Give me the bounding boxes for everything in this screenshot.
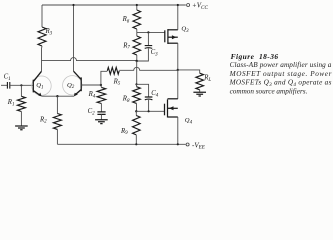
capacitor C1 — [7, 82, 9, 89]
junction: driver node (R7/R8) — [136, 60, 138, 62]
svg-text:Q4: Q4 — [185, 117, 193, 125]
wire: input lead — [1, 84, 7, 86]
svg-text:R6: R6 — [122, 16, 130, 24]
svg-text:Q2: Q2 — [67, 82, 75, 90]
resistor R5 — [107, 67, 119, 74]
wire: bottom -Vee rail — [57, 143, 185, 145]
resistor R2 — [53, 114, 61, 130]
svg-text:R8: R8 — [122, 96, 130, 104]
svg-text:Q3: Q3 — [181, 26, 189, 34]
wire: C4 top lead — [137, 84, 149, 97]
wire: Q3 source to output — [177, 43, 179, 70]
wire: R4 to C2 — [100, 104, 102, 112]
wire: Q1 collector node to driver chain (hops over Q2 collector) — [42, 58, 137, 61]
wire: C1 to Q1 base — [10, 84, 34, 86]
svg-text:Class-AB power amplifier using: Class-AB power amplifier using a — [230, 61, 332, 69]
terminal -Vee open circle — [186, 143, 189, 146]
wire: R9 bottom to rail — [135, 135, 137, 144]
svg-text:R2: R2 — [39, 116, 47, 124]
wire: Q3 gate wire — [137, 31, 165, 33]
svg-text:R5: R5 — [113, 78, 121, 86]
wire: C2 to ground — [100, 114, 102, 119]
MOSFET Q3 — [165, 29, 178, 44]
wire: rail to R6 — [136, 5, 138, 10]
wire: R6 to gate node — [136, 29, 138, 32]
wire: top +Vcc rail — [42, 4, 186, 6]
resistor R4 — [97, 87, 106, 103]
capacitor C3 — [145, 46, 153, 49]
wire: R1 bottom lead — [20, 112, 22, 126]
MOSFET Q4 — [165, 99, 178, 118]
resistor R9 — [135, 111, 137, 115]
svg-text:R7: R7 — [122, 42, 130, 50]
svg-text:-VEE: -VEE — [192, 141, 206, 150]
wire: R2 top lead — [56, 96, 58, 113]
wire: Q3 drain to rail — [177, 5, 179, 30]
resistor RL — [196, 73, 204, 90]
capacitor C4 — [145, 97, 153, 100]
junction: output node — [177, 69, 179, 71]
junction: Q2 base / R4 / R5 — [100, 84, 102, 86]
svg-text:Q1: Q1 — [36, 82, 43, 90]
ground (R1) — [15, 126, 28, 130]
wire: R7 bottom to node — [136, 55, 138, 61]
wire: R2 bottom to rail corner — [56, 129, 58, 144]
junction: C3 tap — [147, 31, 149, 33]
capacitor C2 — [97, 112, 105, 115]
wire: R3 top to rail — [41, 5, 43, 27]
wire: C3 top lead — [147, 32, 149, 45]
svg-text:C2: C2 — [88, 108, 96, 116]
junction: C4 bottom tap — [148, 110, 150, 112]
wire: C3 bottom lead — [137, 48, 149, 61]
svg-text:C3: C3 — [151, 49, 159, 57]
resistor R6 — [133, 10, 141, 29]
svg-text:R9: R9 — [120, 128, 128, 136]
transistor Q2 envelope circle — [63, 76, 82, 95]
svg-text:R4: R4 — [88, 91, 96, 99]
svg-text:Figure 18-36: Figure 18-36 — [231, 52, 279, 61]
svg-text:RL: RL — [203, 75, 211, 83]
junction: rail/R6 — [136, 4, 138, 6]
resistor R3 — [38, 27, 46, 46]
wire: R8 bottom to gate node Q4 — [136, 103, 138, 111]
wire: RL to ground — [199, 90, 201, 92]
wire: emitter rail Q1-Q2 — [42, 95, 75, 97]
ground (C2) — [95, 120, 108, 124]
wire: output to RL — [178, 70, 200, 73]
resistor R7 — [136, 32, 138, 36]
resistor R1 — [17, 96, 25, 111]
svg-text:common source amplifiers.: common source amplifiers. — [230, 87, 308, 95]
junction: emitters/R2 — [56, 95, 58, 97]
wire: R1 top lead — [20, 85, 22, 96]
wire: Q4 source to rail — [177, 117, 179, 144]
junction: Q4 source/rail — [177, 143, 179, 145]
resistor R8 — [133, 87, 141, 104]
junction: Q4 gate node — [135, 110, 137, 112]
junction: input/R1 node — [20, 84, 22, 86]
ground (RL) — [193, 92, 206, 96]
wire: Q1 collector up — [41, 49, 43, 72]
wire: output vertical Q3 source to Q4 drain — [177, 70, 179, 99]
svg-text:+VCC: +VCC — [192, 2, 208, 11]
wire: R5 right lead to output (hops over driver chain) — [119, 67, 178, 70]
transistor Q1 (npn) — [33, 71, 41, 95]
svg-text:MOSFET output stage. Power: MOSFET output stage. Power — [229, 70, 332, 78]
wire: R5 left lead — [101, 71, 107, 85]
svg-text:R1: R1 — [7, 99, 15, 107]
wire: Q2 collector up to rail — [73, 5, 75, 71]
transistor Q2 (npn, mirrored) — [74, 71, 82, 95]
junction: rail/Q3 drain — [177, 4, 179, 6]
wire: C4 bottom lead — [148, 100, 150, 112]
transistor Q1 envelope circle — [32, 76, 51, 95]
wire: Q4 gate wire — [136, 110, 164, 112]
wire: driver node down to R8 (passes under R5 hop) — [136, 61, 138, 84]
wire: Q2 base lead — [81, 84, 101, 86]
junction: R8 top / C4 tap — [135, 83, 137, 85]
svg-text:C1: C1 — [4, 74, 11, 82]
junction: R9/rail — [135, 143, 137, 145]
junction: rail/Q2 collector — [72, 4, 74, 6]
terminal +Vcc open circle — [187, 4, 190, 7]
